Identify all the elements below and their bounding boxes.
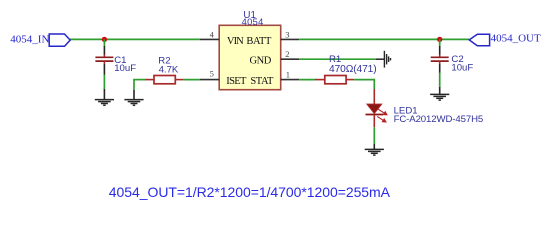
resistor R1	[315, 76, 354, 84]
wire net 4054_IN horizontal	[70, 38, 200, 40]
svg-text:10uF: 10uF	[114, 63, 136, 74]
wire GND pin2	[299, 58, 376, 60]
pin 5 ISET	[200, 79, 219, 81]
IC U1 4054 body	[219, 25, 281, 89]
wire C1 stub	[103, 39, 105, 46]
LED light arrows	[377, 109, 387, 122]
ground GND1 (C1)	[95, 100, 114, 106]
ground GND3 sideways (pin2)	[384, 51, 390, 68]
wire C2 stub	[439, 39, 441, 46]
LED LED1	[366, 89, 387, 127]
wire STAT to R1	[299, 79, 315, 81]
svg-text:5: 5	[210, 68, 214, 78]
ground GND4 (LED)	[365, 149, 384, 155]
svg-text:4054_OUT: 4054_OUT	[491, 33, 541, 45]
svg-text:2: 2	[285, 49, 289, 59]
svg-text:470Ω(471): 470Ω(471)	[329, 64, 377, 75]
wire C2 to ground	[439, 73, 441, 88]
svg-text:10uF: 10uF	[451, 63, 473, 74]
svg-text:1: 1	[286, 70, 290, 80]
wire LED to ground	[373, 127, 375, 144]
pin 2 GND	[281, 58, 300, 60]
wire R2 to pin5	[184, 79, 200, 81]
wire R2 net horizontal	[133, 79, 146, 81]
svg-text:4054: 4054	[242, 17, 264, 27]
svg-text:STAT: STAT	[250, 76, 274, 87]
svg-text:ISET: ISET	[226, 76, 247, 87]
resistor R2	[146, 76, 184, 84]
ground GND2 (R2)	[124, 100, 143, 106]
svg-text:4054_OUT=1/R2*1200=1/4700*1200: 4054_OUT=1/R2*1200=1/4700*1200=255mA	[109, 184, 391, 200]
svg-text:4: 4	[210, 30, 215, 40]
svg-text:4054_IN: 4054_IN	[10, 33, 49, 45]
svg-text:3: 3	[285, 30, 289, 40]
pin 4 VIN	[200, 38, 219, 40]
capacitor C2	[431, 46, 449, 73]
svg-text:BATT: BATT	[246, 36, 272, 47]
svg-text:VIN: VIN	[227, 36, 244, 47]
svg-text:GND: GND	[249, 56, 271, 67]
node junction J2 on 4054_OUT	[437, 37, 442, 42]
node junction J1 on 4054_IN	[102, 37, 107, 42]
wire R2 net vertical to ground	[133, 80, 135, 90]
port 4054_IN	[49, 34, 70, 46]
capacitor C1	[95, 46, 113, 75]
pin 1 STAT	[281, 79, 300, 81]
svg-text:4.7K: 4.7K	[159, 65, 179, 76]
wire R1 to LED corner	[354, 79, 374, 81]
wire C1 to ground	[103, 75, 105, 90]
svg-text:FC-A2012WD-457H5: FC-A2012WD-457H5	[394, 114, 484, 125]
pin 3 BATT	[281, 38, 300, 40]
port 4054_OUT	[469, 34, 489, 46]
wire BATT to 4054_OUT	[299, 38, 469, 40]
ground GND5 (C2)	[430, 94, 449, 100]
